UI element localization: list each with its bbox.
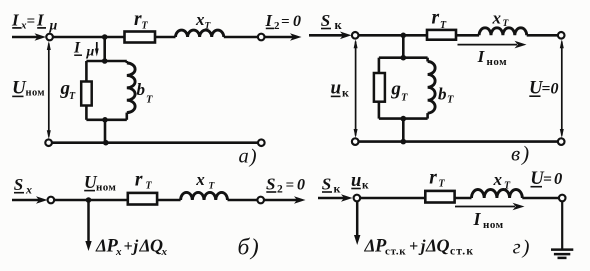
svg-text:Т: Т: [69, 91, 76, 102]
svg-text:0: 0: [554, 169, 562, 188]
svg-text:Т: Т: [146, 94, 153, 105]
svg-text:х: х: [115, 246, 122, 258]
svg-text:Δ: Δ: [425, 236, 437, 256]
svg-text:x: x: [195, 170, 205, 189]
svg-text:=: =: [543, 171, 552, 188]
svg-text:r: r: [432, 8, 440, 29]
svg-text:Δ: Δ: [95, 236, 107, 256]
svg-text:к: к: [342, 86, 349, 100]
svg-text:x: x: [492, 9, 502, 28]
svg-text:ном: ном: [487, 56, 508, 68]
svg-text:ст.к: ст.к: [450, 246, 474, 258]
svg-text:Т: Т: [504, 180, 511, 191]
svg-text:S: S: [321, 11, 330, 30]
svg-text:ном: ном: [26, 88, 45, 99]
svg-text:x: x: [493, 170, 503, 189]
svg-text:g: g: [390, 79, 401, 100]
svg-text:μ: μ: [86, 44, 95, 59]
svg-text:=: =: [286, 178, 295, 194]
svg-text:ном: ном: [483, 219, 504, 231]
svg-text:b: b: [137, 80, 146, 99]
svg-text:к: к: [362, 180, 369, 192]
svg-text:S: S: [266, 175, 275, 194]
svg-text:0: 0: [293, 13, 301, 30]
svg-text:Т: Т: [142, 21, 149, 32]
svg-text:S: S: [14, 175, 23, 194]
svg-text:ст.к: ст.к: [385, 246, 406, 258]
svg-text:+: +: [409, 238, 418, 255]
svg-text:к: к: [334, 181, 341, 195]
svg-text:в): в): [511, 142, 531, 166]
svg-text:г): г): [513, 237, 532, 259]
svg-text:2: 2: [277, 183, 283, 195]
svg-text:I: I: [73, 40, 81, 57]
svg-text:ном: ном: [96, 182, 116, 194]
svg-text:I: I: [265, 11, 273, 30]
svg-text:I: I: [473, 209, 482, 229]
svg-text:x: x: [25, 183, 32, 197]
svg-text:r: r: [135, 170, 143, 191]
svg-text:Т: Т: [447, 95, 454, 106]
svg-text:а): а): [239, 146, 258, 168]
svg-text:к: к: [335, 18, 343, 32]
svg-text:=: =: [27, 14, 36, 30]
svg-text:Δ: Δ: [364, 236, 376, 256]
svg-text:+: +: [124, 238, 133, 255]
svg-text:=: =: [542, 80, 551, 97]
svg-text:b: b: [438, 85, 447, 104]
svg-text:0: 0: [551, 80, 559, 97]
svg-text:Т: Т: [439, 178, 446, 189]
svg-text:=: =: [281, 14, 290, 30]
svg-text:Т: Т: [401, 93, 408, 104]
svg-text:r: r: [429, 168, 437, 189]
svg-text:x: x: [195, 10, 205, 29]
svg-text:Т: Т: [440, 20, 447, 31]
svg-text:Q: Q: [437, 236, 450, 256]
svg-text:u: u: [331, 78, 342, 99]
svg-text:0: 0: [297, 177, 305, 194]
svg-text:б): б): [238, 235, 261, 261]
svg-text:μ: μ: [49, 19, 58, 34]
svg-text:Т: Т: [146, 180, 153, 191]
svg-text:2: 2: [274, 20, 280, 32]
svg-text:Δ: Δ: [139, 236, 151, 256]
svg-text:S: S: [322, 175, 331, 194]
svg-text:х: х: [161, 246, 168, 258]
